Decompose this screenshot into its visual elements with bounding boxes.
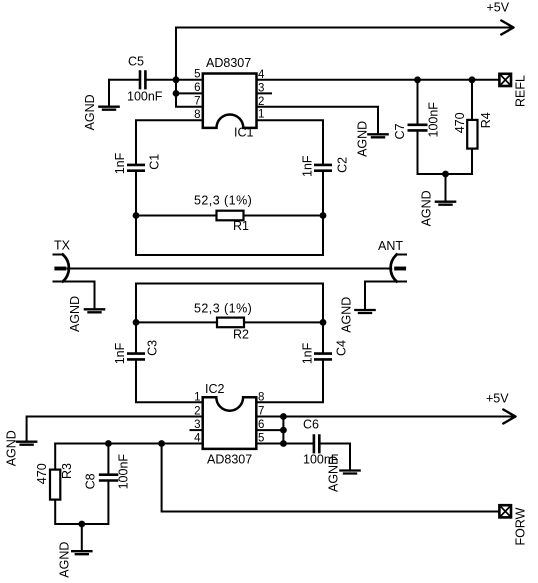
svg-text:AGND: AGND (339, 297, 353, 333)
svg-text:52,3 (1%): 52,3 (1%) (194, 302, 252, 316)
svg-text:FORW: FORW (513, 507, 527, 545)
svg-text:+5V: +5V (486, 392, 509, 406)
svg-text:1nF: 1nF (301, 155, 315, 177)
svg-text:+5V: +5V (487, 1, 510, 15)
svg-text:C2: C2 (335, 157, 349, 173)
svg-text:AGND: AGND (68, 296, 82, 332)
svg-text:C6: C6 (303, 418, 319, 432)
svg-text:1nF: 1nF (113, 152, 127, 174)
svg-text:100nF: 100nF (127, 90, 163, 104)
svg-text:1: 1 (194, 392, 200, 404)
svg-text:470: 470 (453, 112, 467, 133)
svg-text:3: 3 (194, 419, 200, 431)
svg-text:8: 8 (258, 392, 264, 404)
svg-text:R1: R1 (233, 219, 249, 233)
svg-text:AD8307: AD8307 (206, 56, 251, 70)
svg-text:REFL: REFL (514, 75, 528, 107)
svg-text:3: 3 (258, 83, 264, 95)
svg-text:C3: C3 (146, 340, 160, 356)
svg-text:7: 7 (194, 96, 200, 108)
svg-text:AGND: AGND (83, 94, 97, 130)
svg-text:AGND: AGND (5, 430, 19, 466)
svg-text:AGND: AGND (356, 121, 370, 157)
svg-text:52,3 (1%): 52,3 (1%) (194, 194, 252, 208)
svg-text:1nF: 1nF (113, 342, 127, 364)
svg-text:6: 6 (194, 82, 200, 94)
svg-text:R4: R4 (479, 112, 493, 128)
svg-text:ANT: ANT (378, 239, 403, 253)
svg-text:IC2: IC2 (205, 382, 225, 396)
svg-text:C7: C7 (393, 123, 407, 139)
svg-text:1: 1 (258, 109, 264, 121)
svg-text:C4: C4 (335, 340, 349, 356)
svg-text:C5: C5 (128, 55, 144, 69)
svg-text:100nF: 100nF (426, 102, 440, 138)
svg-text:R3: R3 (60, 463, 74, 479)
svg-text:R2: R2 (233, 328, 249, 342)
svg-text:AD8307: AD8307 (207, 453, 252, 467)
svg-text:IC1: IC1 (234, 126, 254, 140)
svg-text:AGND: AGND (326, 456, 340, 492)
svg-text:2: 2 (258, 96, 264, 108)
svg-text:AGND: AGND (420, 190, 434, 226)
svg-text:4: 4 (258, 69, 265, 81)
svg-text:C1: C1 (148, 154, 162, 170)
svg-text:AGND: AGND (58, 542, 72, 578)
svg-text:470: 470 (35, 463, 49, 484)
svg-text:1nF: 1nF (301, 342, 315, 364)
svg-text:4: 4 (194, 433, 201, 445)
svg-text:8: 8 (194, 109, 200, 121)
svg-text:5: 5 (194, 69, 200, 81)
svg-text:TX: TX (54, 239, 71, 253)
svg-text:5: 5 (258, 433, 264, 445)
svg-text:C8: C8 (84, 473, 98, 489)
svg-text:2: 2 (194, 406, 200, 418)
svg-text:100nF: 100nF (116, 454, 130, 490)
svg-text:6: 6 (258, 419, 264, 431)
svg-text:7: 7 (258, 406, 264, 418)
